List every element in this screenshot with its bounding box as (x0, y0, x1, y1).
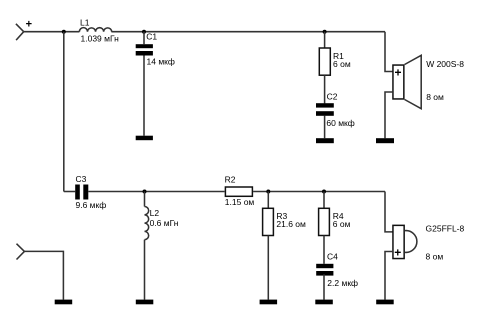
inductor L2 (145, 207, 149, 240)
svg-text:C4: C4 (327, 251, 338, 261)
node R4 junction (322, 190, 326, 194)
svg-text:+: + (26, 19, 32, 31)
wire rail to tweeter (385, 192, 393, 232)
resistor R1 (319, 48, 330, 75)
wire R3 top lead (267, 192, 269, 209)
tweeter G25FFL-8 body (393, 225, 404, 258)
wire L1 to right corner (111, 31, 385, 33)
wire L2 top lead (144, 192, 146, 207)
svg-text:R2: R2 (225, 174, 236, 184)
svg-text:60 мкф: 60 мкф (326, 118, 354, 128)
svg-text:C2: C2 (327, 92, 338, 102)
tweeter dome (405, 231, 417, 253)
wire R4 to C4 (323, 236, 325, 264)
resistor R4 (319, 208, 330, 235)
capacitor C2 (316, 103, 334, 116)
node C1 junction (142, 30, 146, 34)
svg-text:8 ом: 8 ом (426, 92, 444, 102)
wire R4 top lead (323, 192, 325, 209)
capacitor C1 (136, 44, 153, 55)
svg-text:L2: L2 (150, 208, 160, 218)
wire top rail to woofer (385, 32, 393, 72)
node junction at x=64 top rail (62, 30, 66, 34)
capacitor C3 (75, 185, 88, 200)
wire tweeter return (385, 252, 393, 300)
svg-text:C1: C1 (146, 32, 157, 42)
svg-text:W 200S-8: W 200S-8 (426, 59, 464, 69)
ground under woofer (376, 138, 394, 143)
wire corner to C3 (64, 191, 75, 193)
wire R3 to ground (267, 236, 269, 300)
node R1 junction (323, 30, 327, 34)
svg-text:2.2 мкф: 2.2 мкф (327, 278, 358, 288)
svg-text:0.6 мГн: 0.6 мГн (150, 218, 179, 228)
wire R2 to tweeter corner (253, 191, 385, 193)
wire negative input to ground (24, 251, 63, 299)
svg-text:L1: L1 (80, 18, 90, 28)
wire vertical from top rail down to C3 rail (63, 32, 65, 192)
ground under C2 (316, 138, 334, 143)
wire C1 top lead (143, 32, 145, 45)
wire input to L1 (24, 31, 80, 33)
ground under C1 (136, 136, 153, 141)
svg-text:1.15 ом: 1.15 ом (225, 197, 255, 207)
svg-text:9.6 мкф: 9.6 мкф (76, 200, 107, 210)
resistor R3 (263, 208, 274, 235)
svg-text:6 ом: 6 ом (333, 59, 351, 69)
woofer W 200S-8 body (393, 65, 404, 99)
wire C1 bottom lead (143, 56, 145, 136)
wire R1 top lead (324, 32, 326, 48)
svg-text:1.039 мГн: 1.039 мГн (81, 33, 120, 43)
svg-text:+: + (394, 245, 401, 259)
svg-text:C3: C3 (76, 174, 87, 184)
svg-text:6 ом: 6 ом (333, 219, 351, 229)
svg-text:21.6 ом: 21.6 ом (276, 219, 306, 229)
ground under tweeter (376, 300, 394, 305)
ground under L2 (136, 300, 154, 305)
resistor R2 (225, 187, 252, 196)
woofer cone (405, 55, 422, 108)
wire C3 to R2 (88, 191, 224, 193)
svg-text:G25FFL-8: G25FFL-8 (426, 224, 465, 234)
wire L2 to ground (144, 240, 146, 300)
wire R1 to C2 (324, 75, 326, 103)
ground at negative input (55, 300, 72, 305)
node R3 junction (266, 190, 270, 194)
wire woofer return (385, 92, 393, 138)
ground under R3 (260, 300, 278, 305)
wire C2 to ground (324, 116, 326, 139)
inductor L1 (79, 28, 111, 32)
ground under C4 (315, 300, 333, 305)
input terminal (negative) (17, 244, 25, 260)
wire C4 to ground (323, 274, 325, 299)
node L2 junction (143, 190, 147, 194)
svg-text:14 мкф: 14 мкф (147, 57, 175, 67)
input terminal + (positive) (16, 24, 24, 40)
svg-text:+: + (394, 65, 401, 79)
capacitor C4 (316, 264, 333, 276)
svg-text:8 ом: 8 ом (426, 252, 444, 262)
